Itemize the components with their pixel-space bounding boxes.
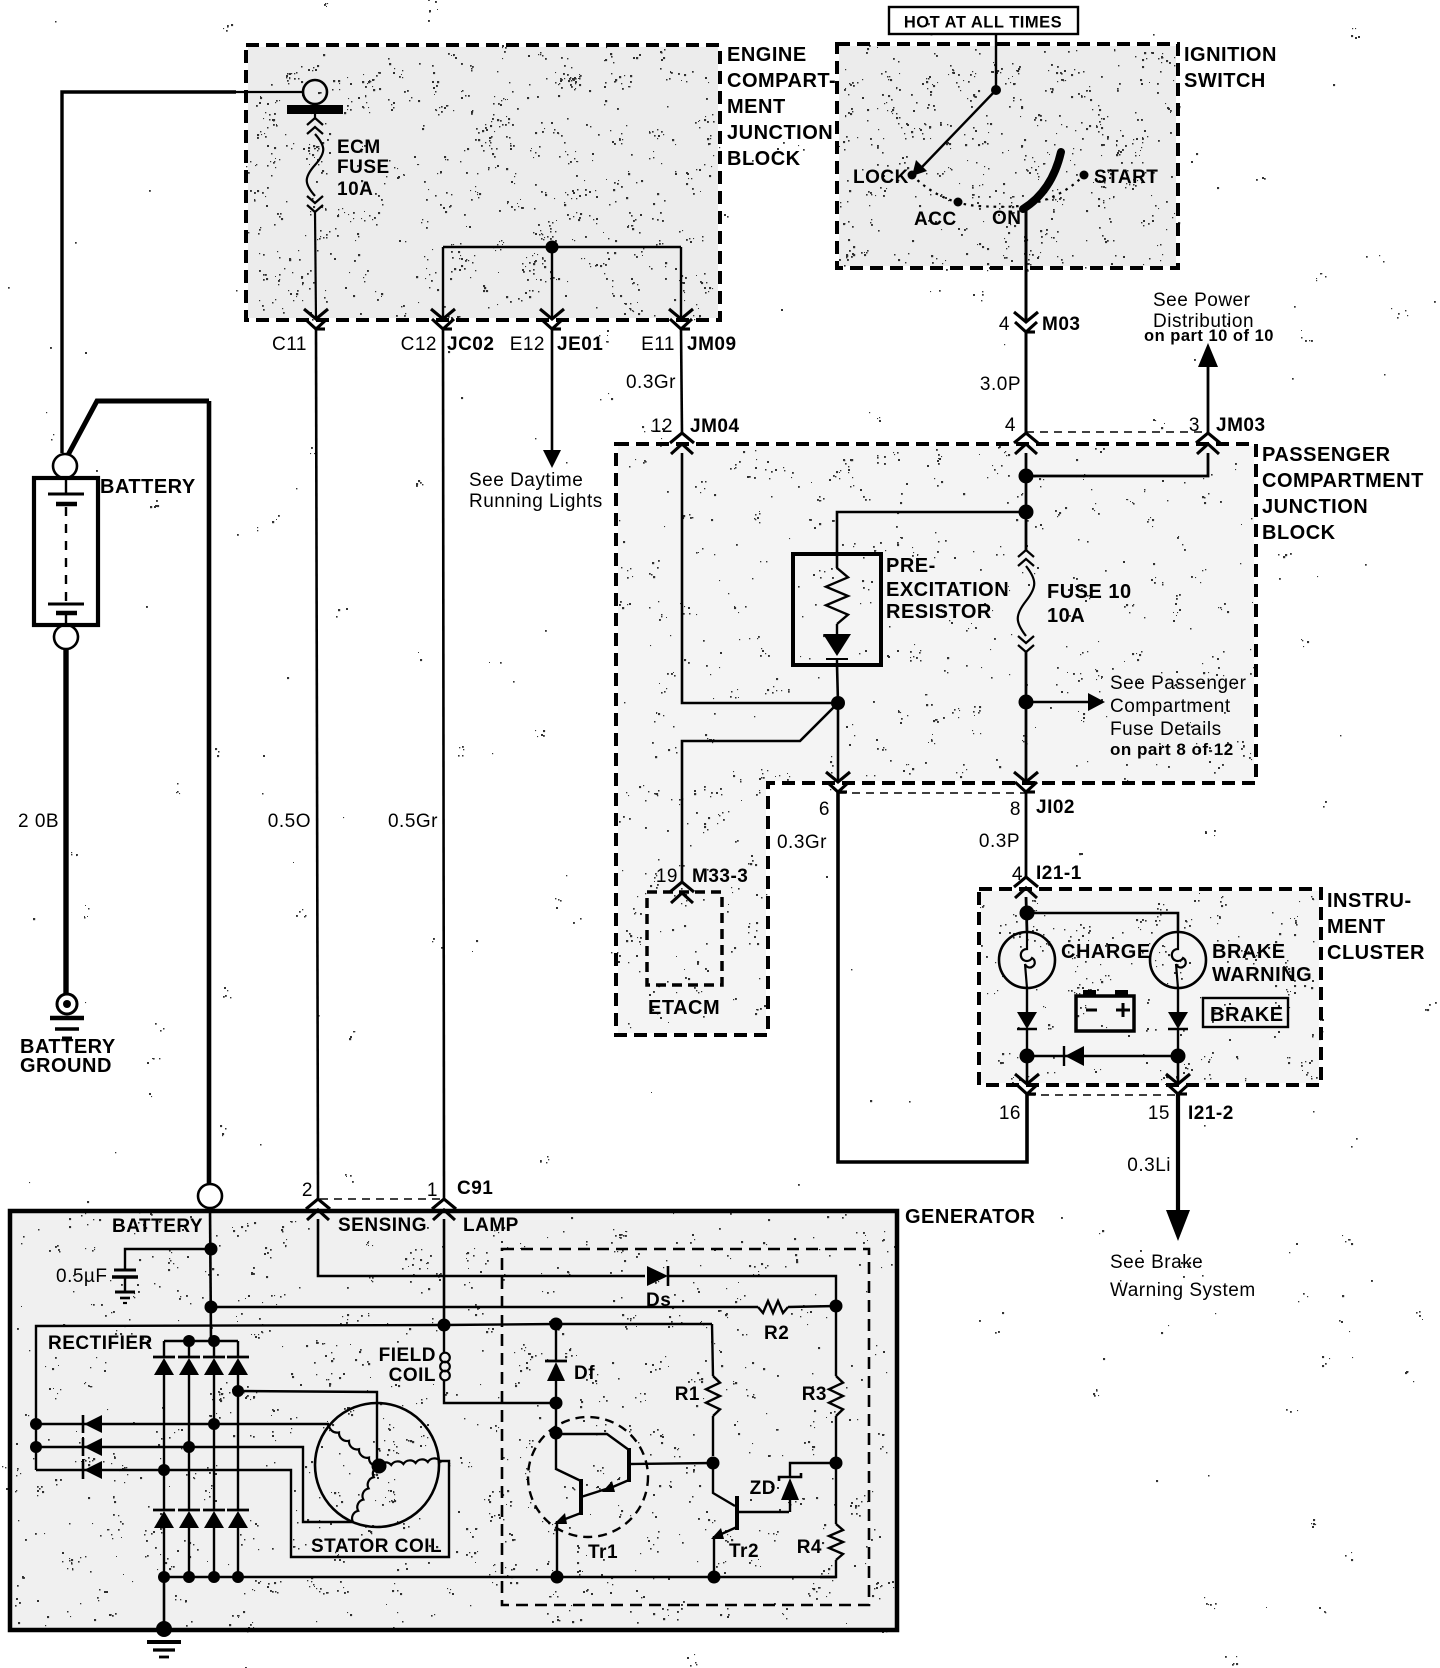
svg-text:GROUND: GROUND	[20, 1055, 112, 1077]
wire JM04 to node C	[682, 453, 838, 703]
svg-text:12: 12	[651, 416, 673, 437]
generator ground	[147, 1621, 181, 1657]
svg-text:4: 4	[1005, 415, 1016, 436]
wire junction B to pre-excitation resistor	[837, 512, 1026, 568]
wire Ds to R3 top	[668, 1276, 836, 1306]
battery ground symbol	[50, 994, 84, 1038]
svg-text:Df: Df	[574, 1363, 595, 1384]
wire passenger pin4 to junction	[1025, 453, 1028, 512]
connector 6 JI02	[819, 772, 850, 820]
svg-text:FUSE: FUSE	[337, 157, 390, 178]
node ECM fuse top terminal	[303, 80, 327, 104]
rectifier lower diode 2	[178, 1510, 200, 1577]
svg-text:BLOCK: BLOCK	[727, 148, 801, 170]
svg-text:MENT: MENT	[1327, 916, 1386, 938]
resistor R3	[802, 1306, 843, 1463]
wire battery positive to generator B+ (thick)	[68, 401, 209, 1184]
wire E11 drop	[680, 247, 682, 319]
rectifier lower diode 3	[203, 1510, 225, 1577]
svg-text:BRAKE: BRAKE	[1210, 1004, 1284, 1026]
wire E12 to daytime running lights arrow	[543, 329, 561, 468]
svg-text:JM09: JM09	[687, 334, 737, 355]
zener diode ZD	[750, 1463, 836, 1512]
svg-text:0.5O: 0.5O	[268, 811, 311, 832]
wire hot feed into ignition switch	[995, 34, 997, 90]
rectifier bottom bus / ground rail	[164, 1576, 836, 1579]
svg-text:CLUSTER: CLUSTER	[1327, 942, 1425, 964]
connector 1 LAMP / C91	[427, 1178, 519, 1236]
node lamp / phase bus junction	[438, 1319, 451, 1332]
wire JM03 to power distribution arrow	[1198, 343, 1218, 434]
wire fuse to node D	[1025, 652, 1028, 782]
svg-text:RECTIFIER: RECTIFIER	[48, 1333, 153, 1354]
generator label	[905, 1206, 1035, 1228]
svg-text:COMPART-: COMPART-	[727, 70, 836, 92]
svg-text:0.3P: 0.3P	[979, 831, 1020, 852]
connector 3 JM03	[1189, 415, 1266, 454]
svg-text:2: 2	[302, 1180, 313, 1201]
wire ECM fuse to C11	[315, 212, 316, 319]
svg-text:ENGINE: ENGINE	[727, 44, 807, 66]
wire battery negative to ground (thick, 2 0B)	[63, 649, 68, 994]
node R2/R3 junction	[830, 1300, 843, 1313]
svg-text:10A: 10A	[1047, 605, 1085, 627]
svg-text:JM04: JM04	[690, 416, 740, 437]
transistor Tr1 (darlington)	[528, 1417, 713, 1577]
instrument cluster box (dashed)	[979, 889, 1321, 1085]
wire sensing drop to Ds line	[318, 1219, 645, 1276]
node R1 / Tr1 base / Tr2 collector	[707, 1457, 720, 1470]
node brake diode output	[1171, 1049, 1186, 1064]
HOT AT ALL TIMES box	[889, 7, 1078, 34]
svg-text:ON: ON	[992, 208, 1022, 229]
ECM fuse label	[337, 137, 390, 200]
ETACM box (dashed)	[647, 892, 722, 1019]
exciter diode 2	[83, 1438, 102, 1456]
resistor R1	[675, 1324, 720, 1456]
wire label 0.5Gr	[388, 811, 438, 832]
wire I21-1 into cluster	[1026, 897, 1027, 932]
node Tr1 emitter ground	[551, 1571, 564, 1584]
svg-text:E12: E12	[510, 334, 545, 355]
svg-text:on part 8 of 12: on part 8 of 12	[1110, 740, 1234, 759]
node bottom bus x214	[208, 1571, 220, 1583]
Tr1 label	[588, 1542, 618, 1563]
svg-text:RESISTOR: RESISTOR	[886, 601, 992, 623]
battery B1	[34, 454, 98, 649]
svg-text:0.3Gr: 0.3Gr	[626, 372, 676, 393]
svg-text:3.0P: 3.0P	[980, 374, 1021, 395]
wire label 2 0B	[18, 811, 59, 832]
svg-text:WARNING: WARNING	[1212, 964, 1312, 986]
switch position LOCK	[853, 167, 917, 188]
ignition switch box (dashed)	[837, 44, 1178, 268]
rectifier lower diode 4	[227, 1510, 249, 1577]
node R3 / ZD / R4	[830, 1457, 843, 1470]
engine compartment junction block label	[727, 44, 836, 170]
field coil	[440, 1325, 550, 1403]
BRAKE telltale box	[1203, 998, 1288, 1027]
generator box	[10, 1211, 897, 1630]
svg-text:1: 1	[427, 1180, 438, 1201]
svg-text:JUNCTION: JUNCTION	[1262, 496, 1368, 518]
wire 3.0P M03 to passenger block	[1025, 332, 1028, 434]
Tr2 label	[729, 1541, 759, 1562]
stator coil	[315, 1403, 440, 1527]
node R2 line tee	[205, 1301, 218, 1314]
engine compartment junction block (dashed box)	[246, 45, 720, 320]
see passenger compartment fuse details note	[1110, 673, 1247, 759]
wire R2 line	[211, 1306, 758, 1308]
node rectifier top col3	[208, 1335, 220, 1347]
svg-text:PRE-: PRE-	[886, 555, 936, 577]
wire B+ terminal drop	[210, 1208, 211, 1341]
svg-text:R1: R1	[675, 1384, 700, 1405]
voltage regulator inner dashed box	[502, 1249, 869, 1605]
wire resistor output to node C	[837, 665, 838, 703]
wire label 0.3Li	[1127, 1155, 1171, 1176]
resistor R4	[797, 1463, 843, 1577]
switch position START	[1080, 167, 1159, 188]
svg-text:0.3Gr: 0.3Gr	[777, 832, 827, 853]
exciter diode 3	[83, 1461, 102, 1479]
svg-text:BATTERY: BATTERY	[100, 476, 196, 498]
node neutral tap col4	[232, 1385, 244, 1397]
diode under charge lamp	[1017, 988, 1037, 1049]
node bottom bus x189	[183, 1571, 195, 1583]
svg-text:4: 4	[999, 314, 1010, 335]
svg-text:0.5µF: 0.5µF	[56, 1266, 107, 1287]
node charge diode output	[1020, 1049, 1035, 1064]
svg-text:BLOCK: BLOCK	[1262, 522, 1336, 544]
rectifier upper diode 3	[203, 1341, 225, 1509]
connector housing 4-3 (thin dashed)	[1026, 431, 1208, 433]
svg-text:M33-3: M33-3	[692, 866, 748, 887]
svg-text:LOCK: LOCK	[853, 167, 909, 188]
svg-text:C11: C11	[272, 334, 307, 355]
svg-text:R4: R4	[797, 1537, 822, 1558]
svg-text:19: 19	[656, 866, 678, 887]
svg-text:EXCITATION: EXCITATION	[886, 579, 1009, 601]
node phase B col2	[183, 1441, 195, 1453]
instrument cluster label	[1327, 890, 1425, 964]
svg-text:ECM: ECM	[337, 137, 381, 158]
fuse FUSE 10 10A	[1018, 512, 1035, 652]
capacitor 0.5uF	[112, 1249, 211, 1303]
svg-text:ZD: ZD	[750, 1478, 776, 1499]
see power distribution note	[1144, 290, 1274, 345]
wire label 3.0P	[980, 374, 1021, 395]
generator BATTERY terminal label	[112, 1216, 203, 1237]
connector housing C91 (thin dashed)	[320, 1198, 446, 1200]
rectifier top bus	[164, 1340, 238, 1343]
battery telltale icon	[1076, 990, 1134, 1031]
svg-text:3: 3	[1189, 415, 1200, 436]
exciter diode bus (dashed)	[82, 1415, 84, 1480]
charge indicator lamp	[999, 932, 1055, 988]
svg-text:Compartment: Compartment	[1110, 696, 1231, 717]
wire exciter bus (top)	[36, 1324, 712, 1470]
switch position ACC	[914, 198, 963, 231]
switch position ON (selected, thick arc)	[992, 152, 1061, 229]
pre-excitation resistor label	[886, 555, 1009, 623]
svg-text:R2: R2	[764, 1323, 789, 1344]
node Tr1 collector	[550, 1427, 563, 1440]
svg-text:on part 10 of 10: on part 10 of 10	[1144, 327, 1274, 345]
svg-text:GENERATOR: GENERATOR	[905, 1206, 1035, 1228]
charge label	[1061, 941, 1151, 963]
node phase C col1	[158, 1464, 170, 1476]
rectifier upper diode 4	[227, 1341, 249, 1509]
connector 4 passenger top	[1005, 415, 1038, 454]
wire Df node to Tr1 collector node	[555, 1403, 557, 1470]
connector 4 I21-1	[1012, 863, 1082, 898]
wire junction A to JM03 drop	[1026, 453, 1208, 476]
wire C12 drop	[442, 247, 444, 319]
rectifier upper diode 1	[153, 1341, 175, 1509]
fuse 10 label	[1047, 581, 1132, 627]
svg-text:SENSING: SENSING	[338, 1215, 427, 1236]
wire ON output to M03	[1025, 205, 1028, 322]
svg-text:0.3Li: 0.3Li	[1127, 1155, 1171, 1176]
svg-text:6: 6	[819, 799, 830, 820]
svg-text:2 0B: 2 0B	[18, 811, 59, 832]
wire 0.5Gr C12 to generator lamp	[443, 329, 444, 1199]
see brake warning system note	[1110, 1252, 1256, 1301]
svg-text:MENT: MENT	[727, 96, 786, 118]
svg-text:CHARGE: CHARGE	[1061, 941, 1151, 963]
connector 12 JM04	[651, 416, 740, 454]
svg-text:JUNCTION: JUNCTION	[727, 122, 833, 144]
svg-text:ACC: ACC	[914, 209, 957, 230]
svg-text:8: 8	[1010, 799, 1021, 820]
wire engine junction internal bus	[443, 246, 681, 248]
node bottom bus x164	[158, 1571, 170, 1583]
svg-text:JI02: JI02	[1036, 797, 1075, 818]
battery ground label	[20, 1036, 116, 1077]
diode Ds	[646, 1266, 671, 1311]
connector 2 SENSING	[302, 1180, 427, 1236]
svg-text:FIELD: FIELD	[379, 1345, 436, 1366]
svg-text:I21-1: I21-1	[1036, 863, 1082, 884]
brake warning label	[1212, 941, 1312, 986]
resistor R2	[758, 1301, 836, 1344]
svg-text:ETACM: ETACM	[648, 997, 720, 1019]
svg-text:BATTERY: BATTERY	[112, 1216, 203, 1237]
svg-text:Ds: Ds	[646, 1290, 671, 1311]
field coil label	[379, 1345, 436, 1386]
svg-text:LAMP: LAMP	[463, 1215, 519, 1236]
svg-text:FUSE 10: FUSE 10	[1047, 581, 1132, 603]
svg-text:INSTRU-: INSTRU-	[1327, 890, 1412, 912]
wire label 0.5O	[268, 811, 311, 832]
rectifier upper diode 2	[178, 1341, 200, 1509]
exciter diode 1	[83, 1415, 102, 1433]
svg-text:Warning System: Warning System	[1110, 1280, 1256, 1301]
node bus junction A	[1019, 469, 1034, 484]
svg-text:Fuse Details: Fuse Details	[1110, 719, 1222, 740]
svg-text:See Power: See Power	[1153, 290, 1251, 311]
svg-text:See Daytime: See Daytime	[469, 470, 583, 491]
diode under brake warning lamp	[1168, 988, 1188, 1049]
svg-text:JC02: JC02	[447, 334, 494, 355]
node rectifier top col2	[183, 1335, 195, 1347]
wire label 0.3Gr (JI02 pin6)	[777, 832, 827, 853]
svg-text:Tr2: Tr2	[729, 1541, 759, 1562]
ignition switch label	[1184, 44, 1277, 92]
svg-text:IGNITION: IGNITION	[1184, 44, 1277, 66]
ignition switch lever	[912, 85, 1001, 176]
node cluster junction	[1020, 906, 1035, 921]
svg-text:COIL: COIL	[389, 1365, 436, 1386]
node bottom bus x238	[232, 1571, 244, 1583]
arrow to passenger fuse details	[1026, 693, 1105, 711]
svg-text:C91: C91	[457, 1178, 493, 1199]
connector 16	[999, 1056, 1039, 1124]
node exciter bus phase B	[30, 1441, 42, 1453]
wire node C to ETACM	[682, 703, 838, 882]
transistor Tr2	[711, 1463, 789, 1577]
svg-text:HOT AT ALL TIMES: HOT AT ALL TIMES	[904, 14, 1062, 32]
node bus junction B (pre-excitation tee)	[1019, 505, 1034, 520]
connector 19 M33-3	[656, 866, 749, 903]
see daytime running lights note	[469, 470, 603, 512]
svg-text:10A: 10A	[337, 179, 373, 200]
node field coil return	[550, 1397, 563, 1410]
wire 0.3Li brake warning output	[1166, 1094, 1190, 1241]
connector C11	[272, 309, 328, 355]
wire E12 drop	[551, 247, 553, 319]
connector E11 / JM09	[641, 309, 736, 355]
capacitor label 0.5uF	[56, 1266, 107, 1287]
svg-text:Running Lights: Running Lights	[469, 491, 603, 512]
wire ground drop	[163, 1577, 166, 1628]
wire neutral to stator center	[238, 1391, 377, 1460]
stator coil label	[311, 1536, 442, 1557]
battery label	[100, 476, 196, 498]
node Df top	[550, 1318, 563, 1331]
node exciter bus phase A	[30, 1418, 42, 1430]
connector housing JI02 (thin dashed)	[838, 792, 1026, 794]
wire JI02 pin8 to I21-1	[1025, 792, 1028, 877]
connector 15 I21-2	[1148, 1056, 1234, 1124]
wire battery positive to ECM fuse (thick top-left)	[62, 92, 304, 453]
svg-text:START: START	[1094, 167, 1158, 188]
pre-excitation resistor	[793, 554, 881, 665]
connector housing I21-2 (thin dashed)	[1027, 1094, 1178, 1096]
wire phase A	[36, 1423, 329, 1425]
node Tr2 emitter ground	[708, 1571, 721, 1584]
generator B+ terminal	[198, 1184, 222, 1208]
wire 0.3Gr E11 to JM04	[681, 329, 682, 434]
svg-text:4: 4	[1012, 864, 1023, 885]
ignition switch detent arc (dotted)	[912, 175, 1084, 207]
node capacitor tee	[205, 1243, 218, 1256]
passenger compartment junction block label	[1262, 444, 1424, 544]
wire phase C	[36, 1461, 449, 1557]
rectifier label	[48, 1333, 153, 1354]
svg-text:JE01: JE01	[557, 334, 603, 355]
svg-text:M03: M03	[1042, 314, 1080, 335]
svg-text:PASSENGER: PASSENGER	[1262, 444, 1391, 466]
wire phase B	[36, 1447, 353, 1522]
wire lamp drop through generator	[443, 1219, 446, 1325]
svg-text:R3: R3	[802, 1384, 827, 1405]
wire cluster top bus	[1027, 913, 1178, 932]
cross diode between nodes	[1027, 1046, 1178, 1066]
svg-text:SWITCH: SWITCH	[1184, 70, 1266, 92]
node phase A col3	[208, 1418, 220, 1430]
svg-text:COMPARTMENT: COMPARTMENT	[1262, 470, 1424, 492]
svg-text:15: 15	[1148, 1103, 1170, 1124]
wire label 0.3Gr	[626, 372, 676, 393]
node C (resistor / JM04 / ETACM junction)	[831, 696, 845, 710]
svg-text:16: 16	[999, 1103, 1021, 1124]
node E12 junction	[546, 241, 559, 254]
svg-text:C12: C12	[401, 334, 437, 355]
wire cluster pin16 to node C column	[838, 792, 1027, 1162]
svg-text:E11: E11	[641, 334, 675, 355]
brake warning lamp	[1150, 932, 1206, 988]
svg-text:0.5Gr: 0.5Gr	[388, 811, 438, 832]
node D (fuse details tee)	[1019, 695, 1034, 710]
connector C12 / JC02	[401, 309, 495, 355]
rectifier lower diode 1	[153, 1510, 175, 1577]
connector E12 / JE01	[510, 309, 604, 355]
svg-text:I21-2: I21-2	[1188, 1103, 1234, 1124]
svg-text:JM03: JM03	[1216, 415, 1266, 436]
fuse ECM FUSE 10A	[287, 103, 343, 212]
connector 4 M03	[999, 312, 1081, 335]
passenger compartment junction block (dashed L-shape)	[616, 444, 1256, 1035]
wire 0.5O C11 to generator sensing	[316, 329, 318, 1199]
wire label 0.3P	[979, 831, 1020, 852]
connector 8 JI02	[1010, 772, 1075, 820]
diode Df	[545, 1324, 595, 1402]
svg-text:STATOR COIL: STATOR COIL	[311, 1536, 442, 1557]
wire node C to JI02 pin 6	[837, 703, 840, 782]
